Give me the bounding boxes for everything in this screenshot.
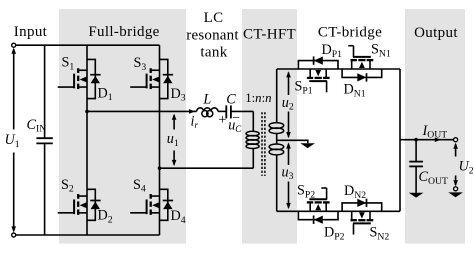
label SP2 <box>297 183 315 201</box>
diode D1 <box>87 59 101 98</box>
label S4 <box>133 177 146 195</box>
svg-text:U1: U1 <box>5 132 20 150</box>
svg-text:CT-bridge: CT-bridge <box>318 25 382 41</box>
svg-text:U2: U2 <box>459 159 474 177</box>
label C <box>226 92 236 108</box>
transistor SP1 <box>307 69 330 92</box>
label U2 <box>459 159 474 177</box>
label u3 <box>282 164 294 182</box>
svg-text:CT-HFT: CT-HFT <box>243 27 296 43</box>
transformer core <box>262 112 265 176</box>
wire CIN branch bottom <box>44 144 46 235</box>
transformer secondary winding lower <box>269 144 284 211</box>
label S2 <box>61 177 74 195</box>
capacitor CIN <box>36 138 52 143</box>
svg-text:DP2: DP2 <box>324 225 345 243</box>
heading CT-HFT <box>243 27 296 43</box>
svg-text:Output: Output <box>414 25 458 41</box>
gray region Full-bridge <box>59 9 186 244</box>
diode DP2 <box>298 211 338 224</box>
wire top rail <box>16 44 160 46</box>
label D1 <box>98 85 113 103</box>
label u2 <box>282 95 294 113</box>
svg-text:Input: Input <box>14 24 48 40</box>
heading Input <box>14 24 48 40</box>
svg-text:ir: ir <box>191 113 199 130</box>
heading LC resonant tank <box>186 10 239 60</box>
svg-text:LC: LC <box>204 10 224 26</box>
current arrow IOUT <box>435 137 441 142</box>
label COUT <box>419 169 448 187</box>
diode D4 <box>160 189 174 220</box>
wire center tap <box>277 140 308 143</box>
junction left leg midpoint <box>85 110 89 114</box>
node input positive terminal <box>12 43 16 47</box>
ground center tap <box>300 143 315 148</box>
wire L to C <box>218 110 226 112</box>
svg-text:DN2: DN2 <box>344 183 366 201</box>
svg-text:+: + <box>218 112 226 128</box>
transistor SN1 <box>348 46 373 69</box>
label DN1 <box>344 82 366 100</box>
transistor S4 <box>130 194 159 215</box>
transformer secondary winding upper <box>269 69 284 144</box>
wire COUT branch bottom <box>415 167 417 193</box>
wire COUT branch top <box>415 140 417 162</box>
diode DN1 <box>342 69 382 82</box>
wire left leg <box>86 45 88 235</box>
gray region Output <box>405 9 465 244</box>
capacitor COUT <box>409 162 423 167</box>
diode D3 <box>160 59 174 98</box>
svg-text:L: L <box>202 92 211 108</box>
label u1 <box>167 131 179 149</box>
label CIN <box>27 117 47 135</box>
label D3 <box>171 86 186 104</box>
label SN1 <box>371 42 391 60</box>
transistor SN2 <box>351 211 374 234</box>
junction right leg midpoint <box>158 166 162 170</box>
diode D2 <box>87 189 101 220</box>
diode DP1 <box>298 56 338 69</box>
label D2 <box>98 208 113 226</box>
wire right leg <box>159 45 161 235</box>
svg-text:C: C <box>226 92 236 108</box>
node output ground terminal <box>454 187 458 191</box>
wire CT-bridge top <box>277 68 400 70</box>
svg-text:CIN: CIN <box>27 117 47 135</box>
capacitor C <box>226 105 231 118</box>
label minus uC <box>232 110 240 125</box>
label plus uC <box>218 112 226 128</box>
label DN2 <box>344 183 366 201</box>
label D4 <box>171 208 186 226</box>
gray region CT-HFT <box>242 9 297 244</box>
label DP1 <box>322 42 343 60</box>
transistor S1 <box>58 68 87 89</box>
svg-text:Full-bridge: Full-bridge <box>88 24 159 40</box>
svg-text:tank: tank <box>200 44 227 60</box>
label DP2 <box>324 225 345 243</box>
heading Output <box>414 25 458 41</box>
node input negative terminal <box>12 233 16 237</box>
voltage arrow U2 <box>453 143 458 187</box>
transformer primary winding <box>246 111 259 168</box>
current arrow ir <box>189 109 195 114</box>
label ir <box>191 113 199 130</box>
ground output <box>448 192 463 197</box>
wire tank node A <box>87 110 197 112</box>
voltage arrow u3 <box>286 142 291 209</box>
heading Full-bridge <box>88 24 159 40</box>
wire C to primary <box>231 110 253 112</box>
inductor L <box>197 108 218 117</box>
transistor S2 <box>58 194 87 215</box>
transistor SP2 <box>307 188 330 211</box>
label L <box>202 92 211 108</box>
svg-text:uC: uC <box>228 117 242 134</box>
svg-text:DN1: DN1 <box>344 82 366 100</box>
svg-text:DP1: DP1 <box>322 42 343 60</box>
wire output <box>400 139 454 141</box>
voltage arrow u1 <box>172 114 177 167</box>
svg-text:resonant: resonant <box>186 27 239 43</box>
wire right vertical <box>399 69 401 211</box>
node output positive terminal <box>454 138 458 142</box>
label uC <box>228 117 242 134</box>
label S3 <box>134 55 147 73</box>
svg-text:SN1: SN1 <box>371 42 391 60</box>
label SP1 <box>295 79 313 97</box>
wire CIN branch top <box>44 45 46 138</box>
label turns ratio 1:n:n <box>245 91 271 105</box>
heading CT-bridge <box>318 25 382 41</box>
label SN2 <box>370 225 390 243</box>
label U1 <box>5 132 20 150</box>
ground COUT <box>409 193 424 198</box>
voltage arrow u2 <box>286 71 291 138</box>
label S1 <box>62 55 75 73</box>
svg-text:SP2: SP2 <box>297 183 315 201</box>
label IOUT <box>422 123 448 141</box>
wire bottom rail <box>16 234 160 236</box>
svg-text:1:n:n: 1:n:n <box>245 91 271 105</box>
svg-text:SN2: SN2 <box>370 225 390 243</box>
voltage arrow U1 <box>11 48 16 233</box>
wire tank node B <box>160 167 254 169</box>
diode DN2 <box>342 199 382 212</box>
transistor S3 <box>130 68 159 89</box>
wire CT-bridge bottom <box>277 210 400 212</box>
junction COUT tap <box>414 138 418 142</box>
